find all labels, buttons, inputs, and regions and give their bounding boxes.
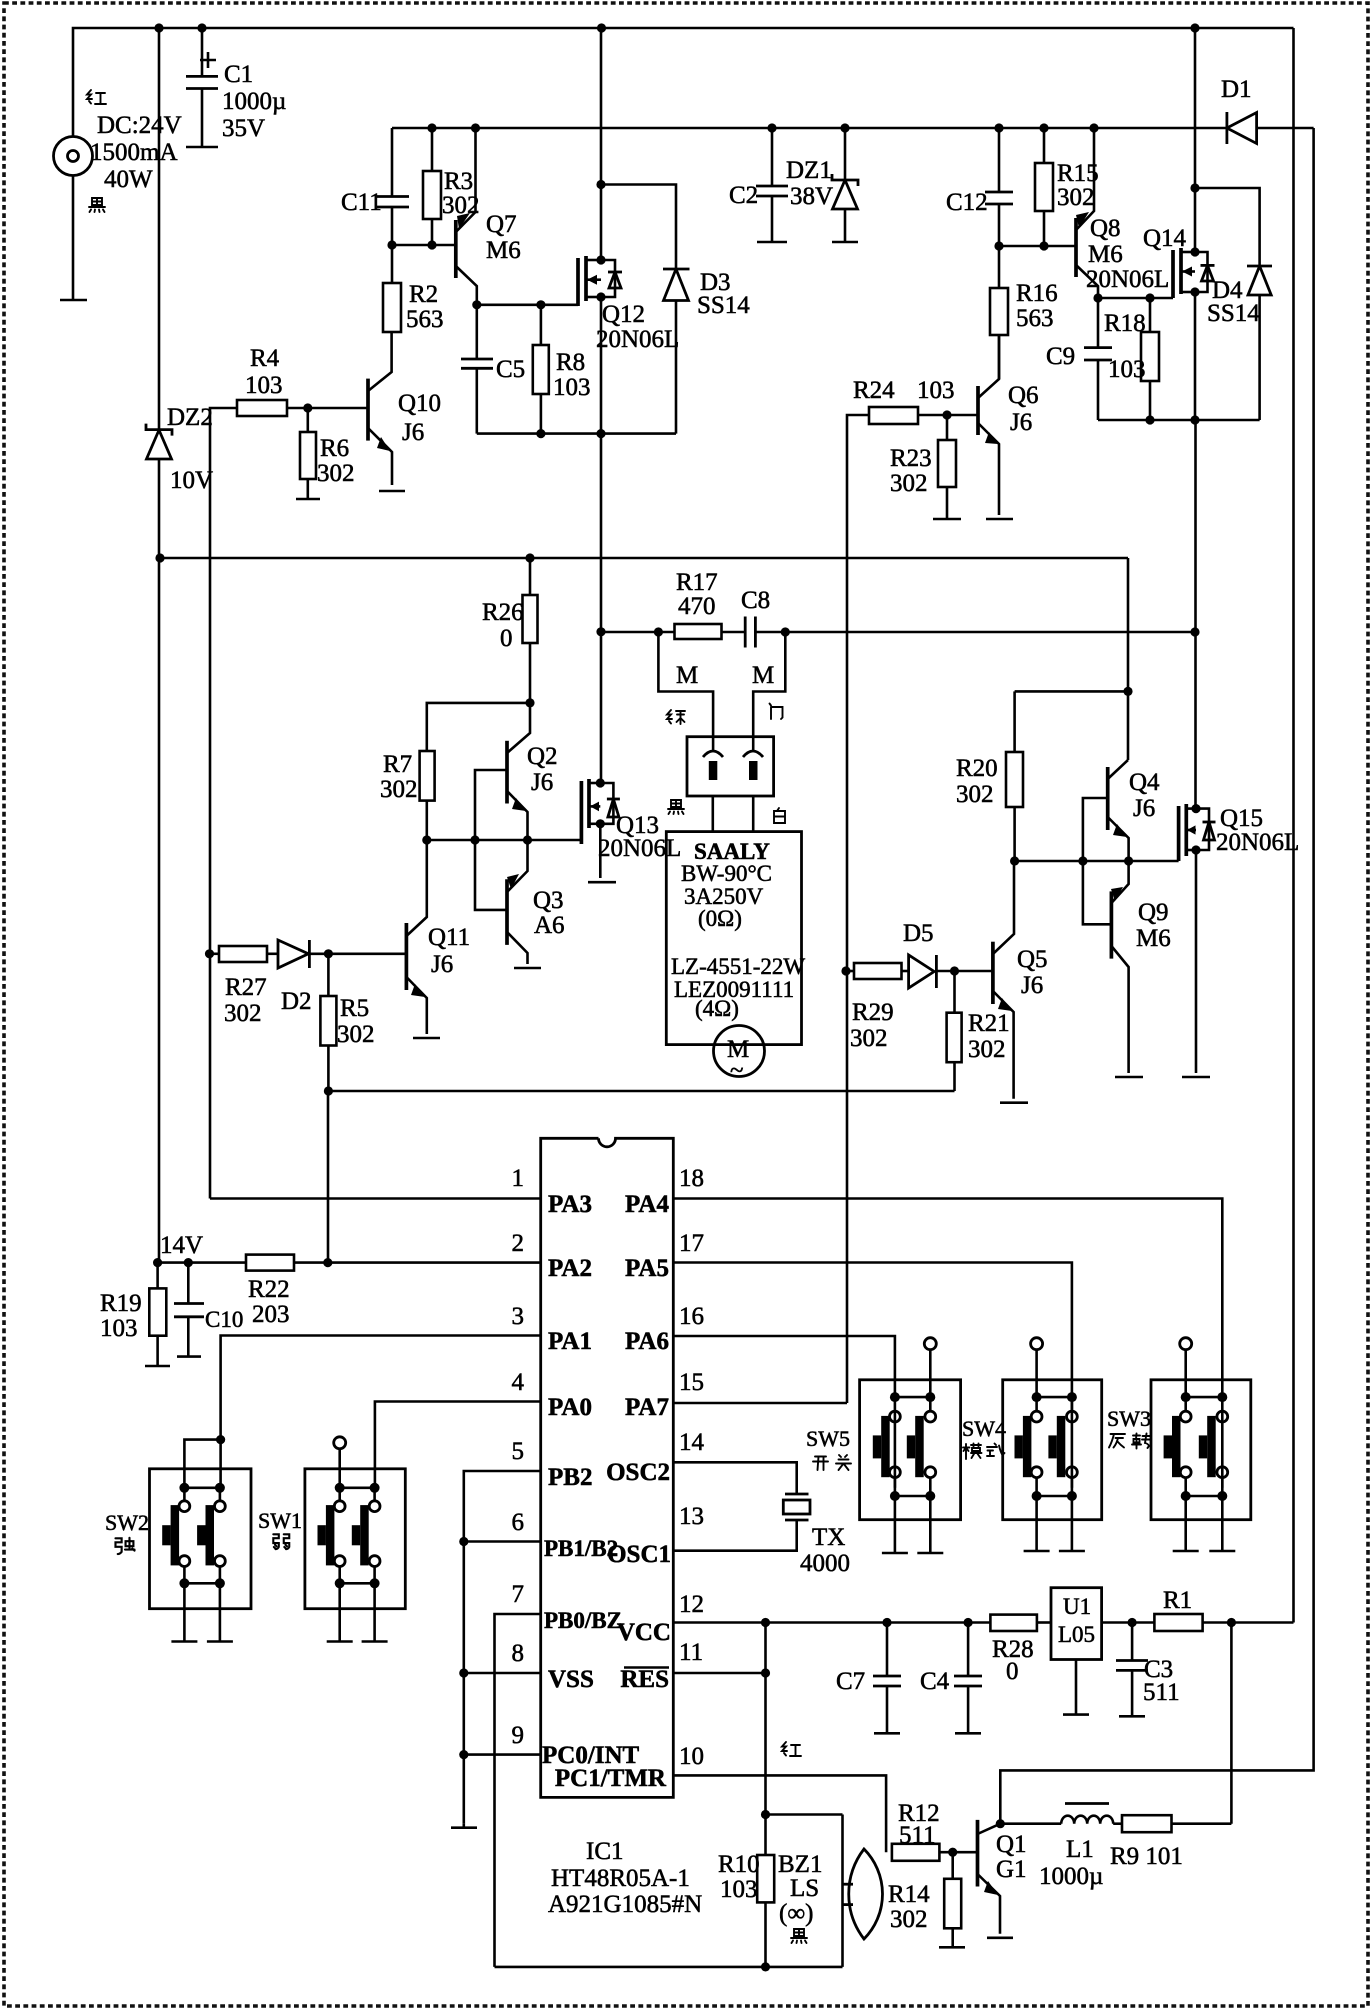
resistor R7 302 xyxy=(420,751,435,801)
svg-text:Q1: Q1 xyxy=(996,1831,1027,1858)
resistor R19 103 xyxy=(156,1263,159,1289)
ground: C7 xyxy=(874,1732,900,1735)
transistor Q2 J6 xyxy=(505,741,509,804)
wire: R1 node down to R9 xyxy=(1230,1623,1233,1824)
svg-text:C4: C4 xyxy=(920,1668,950,1695)
svg-text:BW-90°C: BW-90°C xyxy=(681,861,772,886)
svg-text:Q7: Q7 xyxy=(486,211,517,238)
svg-text:M6: M6 xyxy=(486,237,521,264)
svg-text:10: 10 xyxy=(679,1743,704,1770)
ground: Q9 xyxy=(1115,1076,1143,1079)
svg-text:(0Ω): (0Ω) xyxy=(698,906,742,931)
resistor R27 302 xyxy=(210,952,220,955)
svg-text:302: 302 xyxy=(890,1906,928,1933)
wire: +24V vertical right (to R1 node) xyxy=(1292,28,1295,1623)
svg-text:R9 101: R9 101 xyxy=(1110,1843,1183,1870)
svg-text:PA5: PA5 xyxy=(625,1255,669,1282)
svg-text:38V: 38V xyxy=(790,183,833,210)
wire: Q5 base node xyxy=(955,970,993,973)
svg-text:R1: R1 xyxy=(1163,1587,1192,1614)
capacitor C4 xyxy=(967,1623,970,1677)
svg-text:302: 302 xyxy=(1057,184,1095,211)
resistor R21 302 xyxy=(953,971,956,1013)
switch SW4 模式 xyxy=(1003,1338,1102,1551)
svg-text:R16: R16 xyxy=(1016,280,1058,307)
label: 强 xyxy=(115,1538,134,1554)
wire: VCC vertical to buzzer xyxy=(764,1623,767,1815)
svg-text:R22: R22 xyxy=(248,1276,290,1303)
svg-text:20N06L: 20N06L xyxy=(598,835,681,862)
switch SW5 开关 xyxy=(860,1338,961,1553)
svg-text:PA3: PA3 xyxy=(548,1191,592,1218)
switch SW3 反转 xyxy=(1151,1338,1251,1551)
resistor R22 203 xyxy=(246,1255,294,1271)
svg-text:PC1/TMR: PC1/TMR xyxy=(555,1765,667,1792)
svg-text:R8: R8 xyxy=(556,349,585,376)
resistor R3 302 xyxy=(423,171,441,219)
svg-text:HT48R05A-1: HT48R05A-1 xyxy=(551,1865,690,1892)
switch SW1 弱 xyxy=(305,1437,405,1642)
wire: Q8 base node xyxy=(999,245,1076,248)
capacitor C7 xyxy=(886,1623,889,1677)
svg-text:R5: R5 xyxy=(340,995,369,1022)
svg-text:8: 8 xyxy=(512,1640,525,1667)
resistor R24 103 xyxy=(847,415,869,1403)
svg-text:R23: R23 xyxy=(890,445,932,472)
diode D4 SS14 xyxy=(1247,265,1272,268)
wire: pin3 PA1 wire xyxy=(221,1336,541,1488)
resistor R9 101 xyxy=(1113,1822,1122,1825)
wire: Q13 gate node xyxy=(427,839,582,842)
svg-text:3: 3 xyxy=(512,1303,525,1330)
svg-text:M: M xyxy=(752,662,774,689)
svg-text:(4Ω): (4Ω) xyxy=(695,996,739,1021)
svg-text:SW2: SW2 xyxy=(105,1510,149,1535)
motor block SAALY xyxy=(666,832,801,1045)
ground: Q13 source xyxy=(588,881,616,884)
svg-text:OSC1: OSC1 xyxy=(607,1541,671,1568)
svg-text:302: 302 xyxy=(224,1000,262,1027)
svg-text:PA6: PA6 xyxy=(625,1328,669,1355)
svg-text:13: 13 xyxy=(679,1503,704,1530)
svg-text:R17: R17 xyxy=(676,569,718,596)
capacitor C1 xyxy=(201,28,204,76)
switch SW2 强 xyxy=(150,1469,252,1642)
diode D3 SS14 xyxy=(663,268,690,271)
transistor Q6 J6 xyxy=(976,386,980,435)
svg-text:R20: R20 xyxy=(956,755,998,782)
capacitor C2 xyxy=(767,123,776,132)
svg-text:PA4: PA4 xyxy=(625,1191,669,1218)
wire: leads into SAALY box xyxy=(711,796,714,832)
svg-text:J6: J6 xyxy=(531,769,553,796)
svg-text:C2: C2 xyxy=(729,182,758,209)
svg-text:R29: R29 xyxy=(852,999,894,1026)
svg-text:A6: A6 xyxy=(534,912,565,939)
svg-text:302: 302 xyxy=(890,470,928,497)
mosfet Q14 20N06L xyxy=(1171,250,1175,298)
wire: Q7 base node xyxy=(392,244,456,247)
svg-text:DC:24V: DC:24V xyxy=(97,112,182,139)
svg-text:SW5: SW5 xyxy=(806,1426,850,1451)
transistor Q8 M6 xyxy=(1074,218,1078,277)
svg-text:J6: J6 xyxy=(402,419,424,446)
capacitor C8 xyxy=(744,617,747,648)
svg-text:R7: R7 xyxy=(383,751,412,778)
svg-text:SW4: SW4 xyxy=(962,1416,1006,1441)
resistor R29 302 xyxy=(846,970,854,973)
resistor R10 103 xyxy=(764,1815,767,1856)
IC IC1 HT48R05A-1 box xyxy=(541,1138,674,1797)
svg-text:Q4: Q4 xyxy=(1129,769,1160,796)
svg-text:PA0: PA0 xyxy=(548,1394,592,1421)
wire: R20 top wire xyxy=(1015,690,1128,693)
label: 黑 xyxy=(668,800,684,814)
svg-text:C5: C5 xyxy=(496,356,525,383)
svg-text:DZ1: DZ1 xyxy=(786,157,832,184)
svg-text:Q9: Q9 xyxy=(1138,899,1169,926)
resistor R15 302 xyxy=(1039,123,1048,132)
svg-text:5: 5 xyxy=(512,1438,525,1465)
svg-text:R14: R14 xyxy=(888,1881,930,1908)
wire: 14V rail corner down to Q4 xyxy=(1127,558,1130,760)
wire: pin17 PA5 wire xyxy=(673,1263,1072,1488)
svg-text:9: 9 xyxy=(512,1722,525,1749)
ground: Q1 emitter xyxy=(987,1937,1013,1940)
svg-text:D2: D2 xyxy=(281,988,312,1015)
svg-text:Q15: Q15 xyxy=(1220,805,1263,832)
wire: pin12 VCC wire xyxy=(673,1621,990,1624)
ground: U1 xyxy=(1063,1713,1089,1716)
svg-text:R21: R21 xyxy=(968,1010,1010,1037)
wire: jack negative lead xyxy=(72,176,75,301)
svg-text:M6: M6 xyxy=(1088,241,1123,268)
svg-text:302: 302 xyxy=(968,1036,1006,1063)
label: 弱 xyxy=(273,1534,289,1549)
svg-text:302: 302 xyxy=(337,1021,375,1048)
wire: top +24V rail xyxy=(73,28,1294,137)
wire: pin18 PA4 wire xyxy=(673,1199,1222,1488)
svg-text:R3: R3 xyxy=(444,168,473,195)
transistor Q5 J6 xyxy=(991,942,995,1004)
wire: pin2 PA2 wire xyxy=(158,1261,541,1264)
wire: R17 node wire xyxy=(601,631,675,634)
svg-text:17: 17 xyxy=(679,1230,704,1257)
wire: pin15 PA7 wire xyxy=(673,1402,847,1405)
svg-text:Q14: Q14 xyxy=(1143,225,1187,252)
svg-text:VCC: VCC xyxy=(617,1619,671,1646)
svg-text:R15: R15 xyxy=(1057,160,1099,187)
label: 白 xyxy=(774,808,785,823)
ground: Q10 emitter xyxy=(379,490,405,493)
capacitor C12 xyxy=(994,123,1003,132)
svg-text:20N06L: 20N06L xyxy=(1086,266,1169,293)
svg-text:Q5: Q5 xyxy=(1017,946,1048,973)
wire: pin16 PA6 wire xyxy=(673,1336,895,1488)
wire: R5 node down to PA2 xyxy=(327,1091,330,1263)
svg-text:35V: 35V xyxy=(222,115,265,142)
svg-text:R26: R26 xyxy=(482,599,524,626)
wire: pin10 PC1 wire to R12 xyxy=(673,1775,886,1852)
svg-text:Q8: Q8 xyxy=(1090,215,1121,242)
wire: pin6 PB1 wire xyxy=(464,1540,541,1543)
svg-text:14: 14 xyxy=(679,1429,705,1456)
svg-text:4: 4 xyxy=(512,1369,525,1396)
transistor Q4 J6 xyxy=(1106,767,1110,830)
svg-text:1000µ: 1000µ xyxy=(222,88,286,115)
svg-text:6: 6 xyxy=(512,1509,525,1536)
svg-text:10V: 10V xyxy=(170,467,213,494)
transistor Q7 M6 xyxy=(454,220,458,278)
svg-text:Q10: Q10 xyxy=(398,390,441,417)
svg-text:OSC2: OSC2 xyxy=(606,1459,670,1486)
resistor R14 302 xyxy=(951,1852,954,1879)
svg-text:Q12: Q12 xyxy=(602,301,645,328)
svg-text:TX: TX xyxy=(812,1524,845,1551)
svg-text:16: 16 xyxy=(679,1303,704,1330)
crystal TX 4000 xyxy=(785,1493,809,1496)
zener DZ1 38V xyxy=(840,123,849,132)
wire: motor terminal legs xyxy=(658,632,713,737)
svg-text:R4: R4 xyxy=(250,345,280,372)
ground: C3 xyxy=(1119,1715,1145,1718)
svg-text:RES: RES xyxy=(620,1666,669,1693)
transistor Q11 J6 xyxy=(405,923,409,990)
node: rail junction at DZ2 line xyxy=(154,23,163,32)
svg-text:12: 12 xyxy=(679,1591,704,1618)
ground: Q6 emitter xyxy=(986,518,1013,521)
thermal switch box xyxy=(687,737,774,796)
svg-text:C8: C8 xyxy=(741,587,770,614)
ground: C4 xyxy=(955,1732,981,1735)
wire: Q14 gate node xyxy=(1098,297,1173,300)
svg-text:C10: C10 xyxy=(205,1307,243,1332)
resistor R4 103 xyxy=(237,400,287,416)
svg-text:563: 563 xyxy=(406,306,444,333)
svg-text:2: 2 xyxy=(512,1230,525,1257)
resistor R8 103 xyxy=(533,345,549,394)
svg-text:G1: G1 xyxy=(996,1856,1027,1883)
mosfet Q13 20N06L xyxy=(580,781,584,844)
label: 模式 xyxy=(963,1444,1005,1460)
label: 门 xyxy=(770,704,783,720)
svg-text:203: 203 xyxy=(252,1301,290,1328)
node: Q14 drain / D4 branch xyxy=(1190,183,1199,192)
resistor R1 xyxy=(1154,1614,1202,1631)
svg-text:PA2: PA2 xyxy=(548,1255,592,1282)
wire: pin7 PB0 wire xyxy=(495,1614,541,1967)
svg-text:103: 103 xyxy=(1108,356,1146,383)
svg-text:Q11: Q11 xyxy=(428,924,470,951)
wire: Q11 base node xyxy=(328,952,406,955)
svg-text:SW3: SW3 xyxy=(1107,1406,1151,1431)
wire: SW2 top jog xyxy=(184,1440,220,1488)
diode D2 xyxy=(278,940,308,968)
svg-text:SW1: SW1 xyxy=(258,1508,302,1533)
svg-text:Q3: Q3 xyxy=(533,887,564,914)
capacitor C11 xyxy=(391,207,394,245)
svg-text:M: M xyxy=(676,662,698,689)
resistor R6 302 xyxy=(306,408,309,432)
capacitor C9 xyxy=(1097,298,1100,348)
svg-text:18: 18 xyxy=(679,1165,704,1192)
svg-text:PA7: PA7 xyxy=(625,1394,669,1421)
svg-text:R19: R19 xyxy=(100,1290,142,1317)
svg-text:R18: R18 xyxy=(1104,310,1146,337)
wire: R26 node to R7 xyxy=(427,703,530,751)
resistor R17 470 xyxy=(675,624,722,639)
ground: R6 xyxy=(296,498,320,501)
svg-text:DZ2: DZ2 xyxy=(167,404,213,431)
wire: right edge vertical (to Q1 collector) xyxy=(1000,128,1313,1824)
ground: R19 xyxy=(145,1365,170,1368)
wire: U1 output node xyxy=(1102,1621,1155,1624)
svg-text:1000µ: 1000µ xyxy=(1039,1863,1103,1890)
ground: C10 xyxy=(177,1355,201,1358)
svg-text:11: 11 xyxy=(679,1639,703,1666)
label: 黑 black lead xyxy=(89,198,105,212)
svg-text:PA1: PA1 xyxy=(548,1328,592,1355)
label: 红 red lead xyxy=(87,90,106,104)
node: rail junction at C1 xyxy=(197,23,206,32)
svg-text:J6: J6 xyxy=(1010,409,1032,436)
wire: pin11 RES wire xyxy=(673,1672,765,1675)
node: rail junction at Q14 drain xyxy=(1190,23,1199,32)
svg-text:J6: J6 xyxy=(1021,972,1043,999)
svg-text:511: 511 xyxy=(1143,1679,1180,1706)
resistor R20 302 xyxy=(1013,691,1016,752)
svg-text:Q2: Q2 xyxy=(527,743,558,770)
svg-text:R2: R2 xyxy=(409,281,438,308)
svg-text:563: 563 xyxy=(1016,305,1054,332)
wire: bottom return wire xyxy=(328,1090,954,1093)
wire: pin4 PA0 wire xyxy=(375,1402,541,1488)
svg-text:D5: D5 xyxy=(903,920,934,947)
ground: VSS line xyxy=(451,1826,477,1829)
svg-text:J6: J6 xyxy=(1133,795,1155,822)
wire: Q2/Q3 base link xyxy=(475,770,507,910)
wire: pin1 PA3 wire xyxy=(210,1197,541,1200)
svg-text:20N06L: 20N06L xyxy=(596,326,679,353)
node: Q12 drain / D3 branch xyxy=(596,180,605,189)
diode D5 xyxy=(909,955,935,988)
wire: pin5 PB2 wire xyxy=(464,1471,541,1824)
svg-text:C7: C7 xyxy=(836,1668,865,1695)
capacitor C5 xyxy=(475,305,478,359)
capacitor C10 xyxy=(187,1263,190,1304)
svg-text:C1: C1 xyxy=(224,61,253,88)
ground: Q5 emitter xyxy=(1000,1101,1028,1104)
transistor Q9 M6 xyxy=(1110,891,1114,958)
ground: R14 xyxy=(939,1946,965,1949)
svg-text:103: 103 xyxy=(720,1876,758,1903)
svg-text:L1: L1 xyxy=(1066,1836,1094,1863)
svg-text:U1: U1 xyxy=(1063,1594,1091,1619)
zener DZ2 10V xyxy=(158,28,161,430)
label: 反转 xyxy=(1109,1434,1151,1449)
svg-text:103: 103 xyxy=(553,374,591,401)
wire: R4 node vertical to PA3 xyxy=(210,408,237,1199)
transistor Q1 G1 xyxy=(976,1820,980,1887)
svg-text:VSS: VSS xyxy=(548,1666,594,1693)
svg-text:SS14: SS14 xyxy=(1207,300,1260,327)
svg-text:LZ-4551-22W: LZ-4551-22W xyxy=(671,954,805,979)
resistor R28 0 xyxy=(990,1615,1037,1631)
label: 绿 green xyxy=(667,710,685,724)
svg-text:PB0/BZ: PB0/BZ xyxy=(544,1608,622,1633)
regulator U1 L05 xyxy=(1051,1588,1102,1660)
resistor R2 563 xyxy=(383,283,401,332)
wire: Q14 source bottom wire xyxy=(1098,419,1260,422)
svg-text:A921G1085#N: A921G1085#N xyxy=(548,1891,702,1918)
ground: R23 xyxy=(933,518,961,521)
transistor Q10 J6 xyxy=(366,379,370,441)
svg-text:C9: C9 xyxy=(1046,343,1075,370)
svg-text:511: 511 xyxy=(899,1822,936,1849)
svg-text:LS: LS xyxy=(790,1875,819,1902)
mosfet Q15 20N06L xyxy=(1177,806,1181,861)
wire: Q13 drain from R17 node xyxy=(600,434,603,783)
ground: Q11 emitter xyxy=(413,1037,440,1040)
resistor R26 0 xyxy=(529,558,532,595)
label: 黑 xyxy=(791,1929,807,1943)
svg-text:4000: 4000 xyxy=(800,1550,850,1577)
wire: Q12 gate node xyxy=(477,303,578,306)
svg-text:20N06L: 20N06L xyxy=(1216,829,1299,856)
svg-text:1500mA: 1500mA xyxy=(90,139,178,166)
wire: Q4/Q9 base link xyxy=(1083,798,1112,924)
svg-text:J6: J6 xyxy=(431,951,453,978)
svg-text:0: 0 xyxy=(500,625,513,652)
svg-text:103: 103 xyxy=(245,372,283,399)
svg-text:1: 1 xyxy=(512,1165,525,1192)
svg-text:R27: R27 xyxy=(225,974,267,1001)
svg-text:302: 302 xyxy=(956,781,994,808)
ground: Q15 source xyxy=(1182,1076,1210,1079)
svg-text:0: 0 xyxy=(1006,1658,1019,1685)
svg-text:40W: 40W xyxy=(104,166,153,193)
svg-text:M6: M6 xyxy=(1136,925,1171,952)
svg-text:302: 302 xyxy=(850,1025,888,1052)
wire: buzzer bottom wire to PB0 xyxy=(495,1966,843,1969)
mosfet Q12 20N06L xyxy=(576,258,580,306)
connector J-DC input jack xyxy=(54,137,93,176)
svg-text:302: 302 xyxy=(380,776,418,803)
svg-text:470: 470 xyxy=(678,593,716,620)
wire: pin14 OSC2 wire xyxy=(673,1462,796,1494)
svg-text:BZ1: BZ1 xyxy=(778,1851,822,1878)
resistor R23 302 xyxy=(946,415,949,440)
buzzer BZ1 LS xyxy=(766,1813,843,1816)
svg-text:302: 302 xyxy=(317,460,355,487)
svg-text:(∞): (∞) xyxy=(779,1900,813,1927)
svg-text:PB2: PB2 xyxy=(548,1464,592,1491)
wire: Q15 gate node xyxy=(1015,860,1179,863)
svg-text:C11: C11 xyxy=(341,189,382,216)
capacitor C3 511 xyxy=(1131,1623,1134,1661)
resistor R5 302 xyxy=(327,954,330,996)
inductor L1 1000µ xyxy=(1000,1822,1061,1825)
svg-text:103: 103 xyxy=(100,1315,138,1342)
svg-text:Q6: Q6 xyxy=(1008,382,1039,409)
svg-text:14V: 14V xyxy=(160,1232,203,1259)
svg-text:R10: R10 xyxy=(718,1851,760,1878)
svg-text:IC1: IC1 xyxy=(586,1838,624,1865)
label: 开关 xyxy=(813,1455,851,1470)
svg-text:7: 7 xyxy=(512,1581,525,1608)
resistor R12 511 xyxy=(892,1844,940,1861)
ground: jack return bar xyxy=(60,299,87,302)
